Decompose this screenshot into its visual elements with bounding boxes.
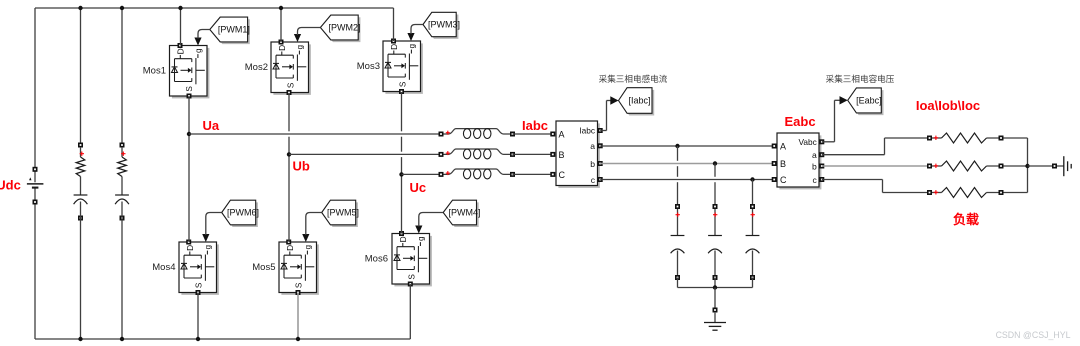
resistor R1 (load) — [942, 133, 987, 143]
DC source Udc — [27, 167, 44, 205]
svg-text:D: D — [389, 44, 399, 50]
svg-text:B: B — [559, 150, 565, 160]
Mos3 source port — [399, 89, 404, 94]
svg-text:S: S — [185, 86, 194, 92]
Mos5 source port — [296, 290, 301, 295]
junction RC branch 1 top — [78, 6, 82, 10]
goto arrow into [Eabc] — [840, 96, 848, 104]
wire RC branch 2 cap lead — [121, 202, 123, 219]
ground port (capacitor bank) — [713, 308, 718, 313]
wire [PWM6] to gate — [206, 213, 222, 236]
Goto tag [Iabc] — [619, 88, 655, 116]
wire row a Iabc to Eabc — [600, 145, 774, 147]
load resistor R1 lead — [930, 137, 942, 139]
svg-text:Mos1: Mos1 — [143, 66, 166, 77]
load resistor R1 polarity + — [934, 136, 938, 140]
svg-text:[PWM6]: [PWM6] — [227, 208, 259, 218]
transistor Mos3 (MOSFET block) — [383, 41, 423, 94]
svg-text:[Eabc]: [Eabc] — [856, 96, 882, 106]
svg-text:Udc: Udc — [0, 177, 21, 192]
wire top DC bus — [35, 7, 394, 9]
RC branch 1 ports — [78, 143, 83, 221]
Mos2 source port — [287, 90, 292, 95]
wire Eabc c to load R3 — [822, 180, 930, 193]
Mos3 gate arrow — [407, 33, 414, 41]
cap branch 2 top port — [713, 204, 718, 209]
wire RC branch 1 mid — [80, 177, 82, 196]
Mos1 source port — [187, 94, 192, 99]
wire load bus to ground — [1028, 165, 1064, 167]
From tag [PWM1] — [210, 17, 250, 44]
junction RC branch 2 top — [120, 6, 124, 10]
svg-text:c: c — [813, 175, 818, 185]
Mos1 gate arrow — [194, 38, 201, 46]
svg-text:C: C — [780, 175, 787, 185]
Iabc input ports — [550, 132, 555, 177]
wire cap branch 1 lead — [677, 209, 679, 236]
three-phase voltage measurement block Eabc — [777, 133, 821, 189]
wire RC branch 1 bottom — [80, 218, 82, 339]
svg-text:g: g — [408, 43, 417, 48]
wire RC branch 2 mid — [121, 177, 123, 196]
wire cap branch 1 to bus — [677, 278, 679, 288]
wire [PWM3] to gate — [411, 25, 423, 35]
svg-text:CSDN @CSJ_HYL: CSDN @CSJ_HYL — [996, 330, 1071, 340]
Mos4 drain port — [186, 240, 191, 245]
inductor LC polarity + — [446, 171, 450, 175]
junction RC branch 1 bottom — [78, 337, 82, 341]
svg-text:采集三相电感电流: 采集三相电感电流 — [599, 73, 668, 84]
wire cap branch 2 to bus — [714, 278, 716, 288]
wire cap branch 3 lower lead — [752, 251, 754, 278]
svg-text:D: D — [398, 236, 408, 242]
Iabc block pin labels — [559, 125, 596, 185]
Mos5 drain port — [286, 240, 291, 245]
wire Mos6 source to bottom bus — [409, 284, 411, 339]
capacitor RC branch 1 — [74, 195, 88, 204]
svg-text:D: D — [185, 245, 195, 251]
svg-text:b: b — [590, 159, 595, 169]
wire row c Iabc to Eabc — [600, 179, 774, 181]
inductor LB coil — [441, 149, 513, 159]
cap branch 1 polarity + — [676, 213, 680, 217]
svg-text:S: S — [294, 282, 303, 288]
svg-text:S: S — [286, 82, 295, 88]
wire cap branch 2 drop — [714, 164, 716, 207]
RC branch 1 polarity + — [80, 152, 84, 156]
Mos6 gate arrow — [415, 226, 422, 234]
load resistor R3 ports — [927, 190, 1004, 195]
Eabc output ports — [819, 139, 824, 182]
svg-text:Ioa\Iob\Ioc: Ioa\Iob\Ioc — [916, 98, 980, 113]
transistor Mos4 (MOSFET block) — [179, 242, 219, 295]
load resistor R2 lead — [930, 165, 942, 167]
inductor LB ports — [439, 152, 516, 157]
junction bottom bus / Mos4 — [196, 337, 200, 341]
wire Eabc a to load R1 — [822, 138, 930, 155]
resistor R2 (load) — [942, 161, 987, 171]
wire RC branch 2 upper lead — [121, 147, 123, 157]
svg-text:c: c — [591, 175, 596, 185]
transistor Mos2 (MOSFET block) — [271, 42, 311, 95]
From tag [PWM5] — [322, 200, 359, 227]
svg-text:g: g — [417, 236, 426, 241]
From tag [PWM4] — [443, 200, 480, 227]
wire RC branch 1 top — [80, 8, 82, 145]
load resistor R1 ports — [927, 136, 1004, 141]
cap branch 2 bottom port — [713, 275, 718, 280]
wire R2 to bus — [987, 165, 1028, 167]
wire R3 to bus — [987, 192, 1028, 194]
svg-text:a: a — [812, 150, 817, 160]
transistor Mos1 (MOSFET block) — [170, 46, 210, 99]
Mos3 drain port — [391, 39, 396, 44]
inductor LC coil — [441, 169, 513, 179]
cap branch 1 bottom port — [675, 275, 680, 280]
junction cap branch 3 — [750, 177, 754, 181]
resistor R3 (load) — [942, 188, 987, 198]
svg-text:Iabc: Iabc — [579, 125, 595, 135]
svg-text:D: D — [175, 48, 185, 54]
svg-text:D: D — [285, 245, 295, 251]
Mos2 drain port — [279, 40, 284, 45]
wire [PWM5] to gate — [306, 213, 322, 236]
svg-text:[PWM1]: [PWM1] — [218, 25, 250, 35]
node Ua junction — [187, 132, 191, 136]
wire Eabc b to load R2 — [822, 165, 930, 167]
RC branch 2 polarity + — [121, 152, 125, 156]
svg-text:[PWM5]: [PWM5] — [327, 208, 359, 218]
capacitor C1 — [671, 236, 685, 254]
svg-text:S: S — [407, 274, 416, 280]
ground (load, rotated) — [1064, 156, 1071, 176]
inductor LA ports — [439, 132, 516, 137]
wire Mos4 source to bottom bus — [197, 293, 199, 340]
capacitor C3 — [746, 236, 760, 254]
svg-text:g: g — [194, 48, 203, 53]
Eabc input ports — [772, 144, 777, 183]
wire cap branch 1 drop — [677, 146, 679, 207]
svg-text:A: A — [780, 142, 786, 152]
svg-text:Mos2: Mos2 — [245, 62, 268, 73]
Mos6 source port — [408, 282, 413, 287]
junction top bus / Mos2 — [279, 6, 283, 10]
transistor Mos6 (MOSFET block) — [392, 234, 432, 287]
svg-text:Ua: Ua — [203, 118, 220, 133]
svg-text:[PWM2]: [PWM2] — [328, 23, 360, 33]
wire cap branch 3 lead — [752, 209, 754, 236]
three-phase current measurement block Iabc — [556, 121, 600, 188]
cap branch 2 polarity + — [713, 213, 717, 217]
svg-text:A: A — [559, 129, 565, 139]
junction cap branch 2 — [713, 161, 717, 165]
ground (capacitor bank) — [704, 323, 726, 331]
From tag [PWM2] — [320, 15, 360, 42]
wire [PWM1] to gate — [198, 30, 210, 39]
node Ub junction — [287, 152, 291, 156]
wire RC branch 1 cap lead — [80, 202, 82, 219]
wire RC branch 2 top — [121, 8, 123, 145]
wire inductor LC to Iabc block — [513, 173, 553, 175]
wire leg A Mos1 source to Mos4 drain — [188, 96, 190, 242]
junction load bus — [1025, 164, 1029, 168]
load resistor R3 lead — [930, 192, 942, 194]
Mos1 drain port — [178, 43, 183, 48]
wire ground lead — [714, 313, 716, 323]
wire cap branch 2 lead — [714, 209, 716, 236]
From tag [PWM6] — [222, 200, 259, 227]
junction RC branch 2 bottom — [120, 337, 124, 341]
svg-text:B: B — [780, 159, 786, 169]
wire Eabc Vabc to goto tag — [822, 100, 840, 142]
capacitor C2 — [708, 236, 722, 254]
load resistor R2 ports — [927, 164, 1004, 169]
wire cap branch 3 drop — [752, 180, 754, 207]
wire cap bus to ground — [714, 288, 716, 311]
wire capacitor bank bus — [678, 287, 753, 289]
Mos4 gate arrow — [202, 234, 209, 242]
svg-text:采集三相电容电压: 采集三相电容电压 — [826, 73, 895, 84]
svg-text:S: S — [398, 81, 407, 87]
Mos2 gate arrow — [294, 34, 301, 42]
transistor Mos5 (MOSFET block) — [279, 242, 319, 295]
wire top bus to Mos3 drain — [393, 8, 395, 41]
cap branch 3 polarity + — [751, 213, 755, 217]
RC branch 2 ports — [120, 143, 125, 221]
svg-text:g: g — [304, 244, 313, 249]
inductor LA polarity + — [446, 131, 450, 135]
wire row b Iabc to Eabc — [600, 163, 774, 165]
svg-text:Mos3: Mos3 — [357, 61, 380, 72]
wire bottom DC bus — [35, 338, 410, 340]
wire R1 to bus — [987, 137, 1028, 139]
resistor RC branch 2 — [118, 157, 127, 177]
Goto tag [Eabc] — [848, 88, 884, 115]
svg-text:Iabc: Iabc — [522, 118, 548, 133]
svg-text:[PWM3]: [PWM3] — [428, 20, 460, 30]
svg-text:C: C — [559, 170, 566, 180]
From tag [PWM3] — [423, 12, 460, 39]
svg-text:负载: 负载 — [953, 212, 979, 227]
inductor LA coil — [441, 129, 513, 139]
ground port (load) — [1052, 164, 1057, 169]
wire top bus to Mos1 drain — [180, 8, 182, 46]
load resistor R3 polarity + — [934, 190, 938, 194]
svg-text:g: g — [204, 244, 213, 249]
svg-text:Uc: Uc — [410, 180, 427, 195]
svg-text:g: g — [296, 44, 305, 49]
Mos6 drain port — [399, 231, 404, 236]
svg-text:b: b — [812, 162, 817, 172]
wire leg B Mos2 source to Mos5 drain — [288, 93, 290, 242]
load resistor R2 polarity + — [934, 164, 938, 168]
wire RC branch 1 upper lead — [80, 147, 82, 157]
svg-text:Eabc: Eabc — [785, 114, 816, 129]
svg-text:[Iabc]: [Iabc] — [629, 96, 651, 106]
svg-text:Mos5: Mos5 — [252, 262, 275, 273]
capacitor RC branch 2 — [115, 195, 129, 204]
wire left DC rail upper — [34, 8, 36, 169]
Mos5 gate arrow — [302, 234, 309, 242]
junction capacitor bus — [713, 285, 717, 289]
cap branch 3 top port — [750, 204, 755, 209]
cap branch 3 bottom port — [750, 275, 755, 280]
Iabc output ports — [598, 128, 603, 182]
inductor LB polarity + — [446, 151, 450, 155]
wire [PWM2] to gate — [298, 28, 321, 36]
wire phase A (Ua) to inductor — [189, 133, 441, 135]
junction bottom bus / Mos5 — [296, 337, 300, 341]
resistor RC branch 1 — [76, 157, 85, 177]
wire phase C (Uc) to inductor — [402, 173, 442, 175]
svg-text:S: S — [194, 282, 203, 288]
svg-text:[PWM4]: [PWM4] — [448, 208, 480, 218]
wire left DC rail lower — [34, 202, 36, 339]
Eabc block pin labels — [780, 137, 818, 185]
svg-text:Vabc: Vabc — [799, 137, 817, 147]
wire cap branch 2 lower lead — [714, 251, 716, 278]
svg-text:a: a — [590, 141, 595, 151]
wire cap branch 1 lower lead — [677, 251, 679, 278]
svg-text:D: D — [277, 45, 287, 51]
wire top bus to Mos2 drain — [280, 8, 282, 42]
svg-text:Mos4: Mos4 — [152, 262, 175, 273]
wire Iabc to goto tag — [600, 101, 611, 131]
wire [PWM4] to gate — [419, 213, 443, 227]
cap branch 1 top port — [675, 204, 680, 209]
wire load right bus — [1027, 138, 1029, 193]
node Uc junction — [399, 172, 403, 176]
wire inductor LA to Iabc block — [513, 133, 553, 135]
svg-text:Mos6: Mos6 — [365, 254, 388, 265]
wire phase B (Ub) to inductor — [289, 153, 441, 155]
junction top bus / Mos1 — [178, 6, 182, 10]
wire inductor LB to Iabc block — [513, 153, 553, 155]
junction cap branch 1 — [675, 144, 679, 148]
wire RC branch 2 bottom — [121, 218, 123, 339]
wire Mos5 source to bottom bus — [297, 293, 299, 340]
wire leg C Mos3 source to Mos6 drain — [401, 92, 403, 234]
wire cap branch 3 to bus — [752, 278, 754, 288]
svg-text:Ub: Ub — [293, 159, 310, 174]
goto arrow into [Iabc] — [610, 96, 618, 104]
inductor LC ports — [439, 172, 516, 177]
Mos4 source port — [196, 290, 201, 295]
